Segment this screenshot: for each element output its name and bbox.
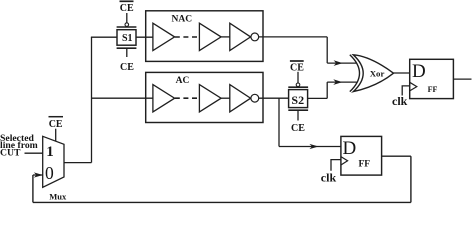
svg-text:FF: FF bbox=[359, 159, 371, 169]
wire NAC output to corner bbox=[259, 36, 328, 38]
wire xor output to FF1 bbox=[394, 72, 410, 74]
svg-text:CE: CE bbox=[120, 62, 134, 73]
mux M1 bbox=[43, 136, 67, 201]
svg-text:S1: S1 bbox=[122, 33, 133, 44]
xor gate U1 bbox=[350, 55, 394, 92]
buffer NAC-2 bbox=[199, 23, 221, 50]
wire into xor upper input bbox=[327, 62, 356, 64]
svg-text:CE: CE bbox=[291, 123, 305, 134]
svg-text:Mux: Mux bbox=[49, 191, 67, 201]
wire feedback up to mux bbox=[32, 175, 34, 202]
svg-text:CE: CE bbox=[49, 119, 63, 130]
wire FF2 clk bbox=[331, 160, 341, 171]
svg-text:D: D bbox=[412, 61, 426, 82]
svg-text:clk: clk bbox=[392, 94, 408, 108]
wire NAC-2 to NAC-3 bbox=[221, 36, 230, 38]
mux enable CE-bar label bbox=[49, 117, 64, 130]
svg-text:S2: S2 bbox=[291, 93, 304, 107]
svg-text:CUT: CUT bbox=[0, 147, 21, 158]
junction AC output branch bbox=[278, 98, 280, 146]
label: Selected line from CUT bbox=[0, 133, 38, 159]
buffer NAC-1 bbox=[153, 23, 175, 50]
svg-text:CE: CE bbox=[120, 3, 134, 14]
svg-text:Xor: Xor bbox=[370, 69, 385, 79]
wire corner down to xor upper input bbox=[326, 37, 328, 63]
wire mux output to riser bbox=[64, 162, 92, 164]
wire dashed AC bbox=[175, 97, 198, 99]
wire S2 output up bbox=[326, 82, 328, 98]
wire into xor lower input bbox=[327, 81, 356, 83]
svg-text:NAC: NAC bbox=[172, 14, 193, 24]
buffer AC-1 bbox=[153, 85, 175, 112]
svg-text:CE: CE bbox=[290, 62, 304, 73]
arrowhead xor lower input bbox=[333, 79, 342, 85]
wire AC-2 to AC-3 bbox=[221, 97, 230, 99]
wire mux CE to mux top bbox=[55, 129, 57, 142]
wire S1 to NAC bbox=[136, 36, 153, 38]
wire branch to FF2 D input bbox=[279, 146, 341, 148]
block NAC bbox=[146, 11, 263, 62]
inverter AC-3 bbox=[230, 85, 259, 112]
wire AC output to S2 bbox=[259, 97, 289, 99]
svg-text:0: 0 bbox=[45, 163, 54, 183]
wire feedback bottom bbox=[33, 201, 411, 203]
wire S2 output bbox=[308, 97, 328, 99]
switch S1 bbox=[117, 13, 137, 57]
flip-flop FF2 bbox=[341, 136, 382, 175]
svg-text:FF: FF bbox=[428, 85, 438, 94]
arrowhead FF2 D input bbox=[309, 144, 318, 149]
S1 CE-bar label bbox=[120, 1, 135, 14]
wire FF1 output bbox=[453, 78, 471, 80]
arrowhead mux pin 0 bbox=[34, 172, 43, 177]
svg-text:AC: AC bbox=[176, 76, 190, 86]
svg-text:1: 1 bbox=[46, 144, 54, 160]
flip-flop FF1 bbox=[410, 59, 454, 98]
block AC bbox=[146, 72, 263, 122]
buffer AC-2 bbox=[199, 85, 221, 112]
wire feedback down bbox=[410, 156, 412, 202]
inverter NAC-3 bbox=[230, 23, 259, 50]
arrowhead xor upper input bbox=[334, 60, 343, 66]
switch S2 bbox=[288, 72, 308, 121]
wire FF2 output bbox=[382, 155, 411, 157]
wire riser (vertical) bbox=[91, 37, 93, 162]
svg-text:D: D bbox=[343, 138, 357, 159]
wire dashed NAC bbox=[175, 36, 198, 38]
wire FF1 clk bbox=[402, 86, 410, 96]
wire riser to AC input bbox=[92, 97, 153, 99]
wire feedback into mux pin 0 bbox=[33, 174, 43, 176]
svg-text:clk: clk bbox=[321, 171, 337, 185]
wire selected-line input to mux pin 1 bbox=[25, 152, 43, 154]
S2 CE-bar label bbox=[290, 61, 304, 73]
wire riser to S1 bbox=[91, 36, 117, 38]
